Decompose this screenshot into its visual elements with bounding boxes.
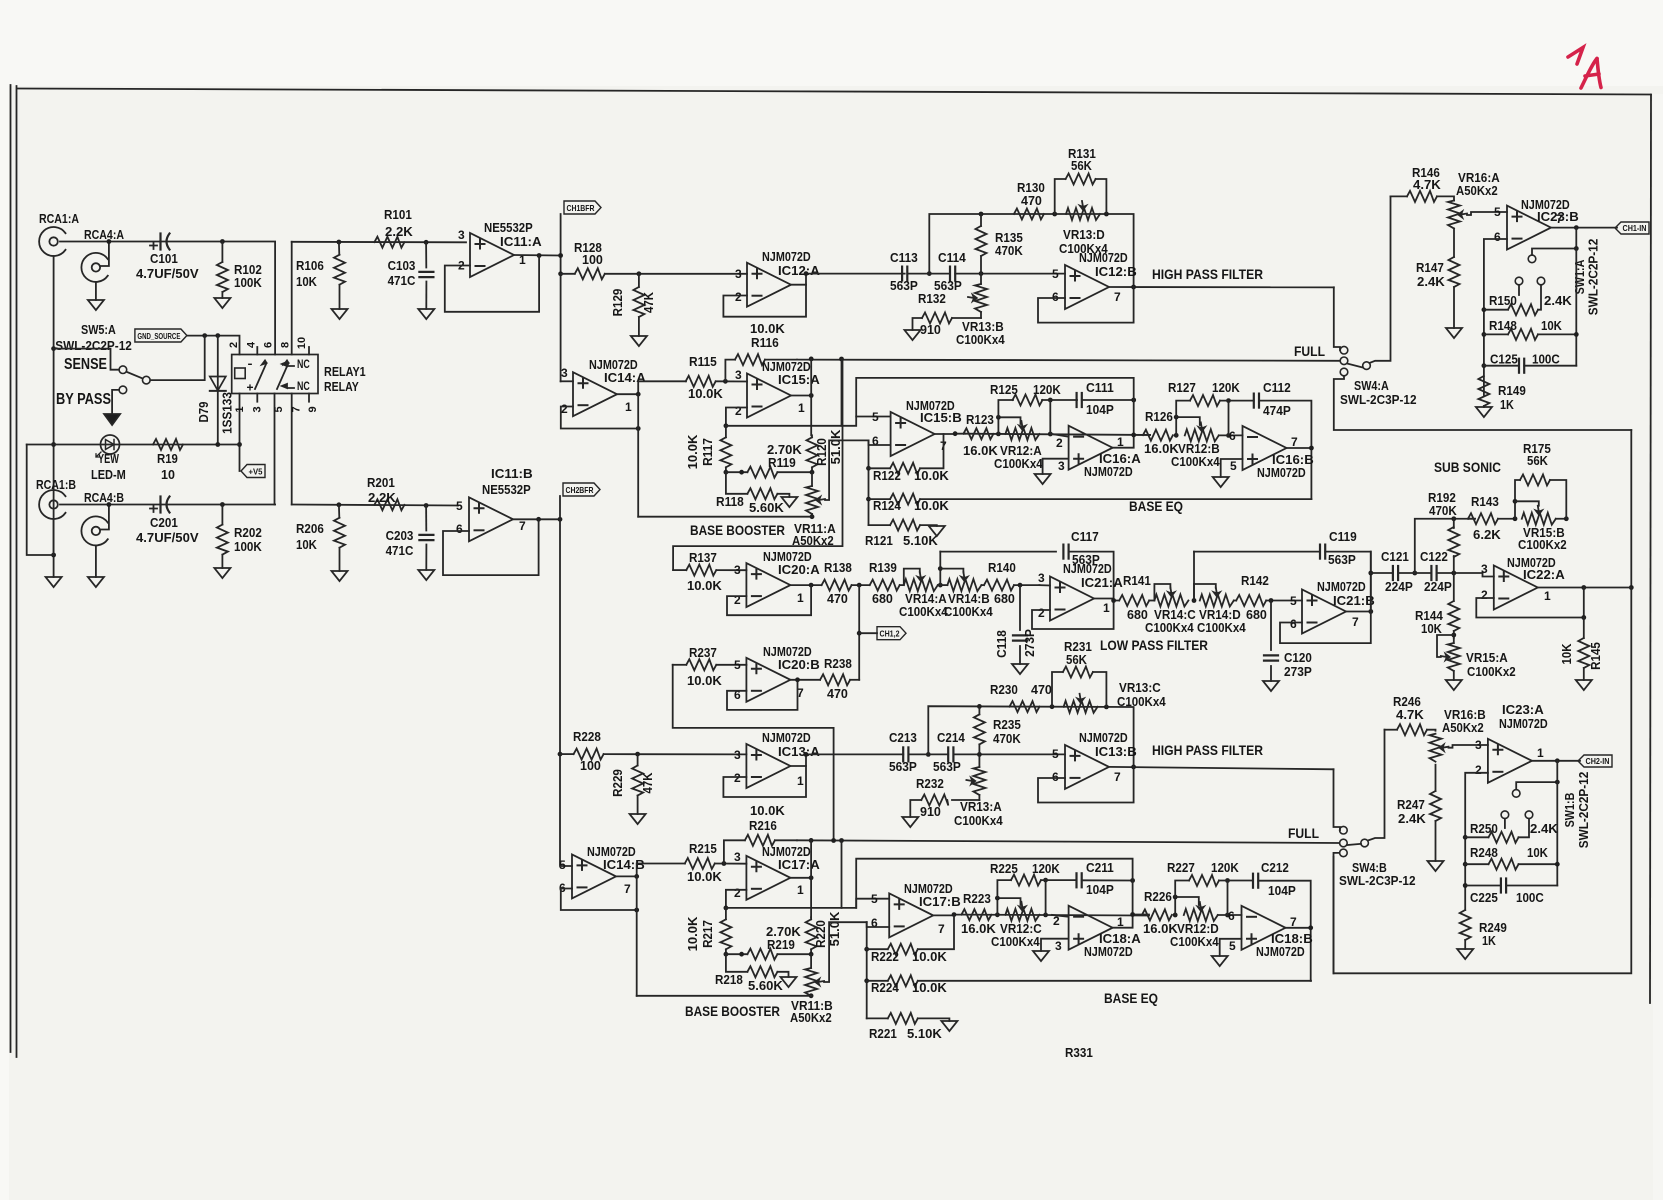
label FULL 2 [1288,825,1319,841]
junction C113-C114 [927,271,932,276]
svg-text:VR14:A: VR14:A [905,592,947,606]
switch SW4:B lever [1347,844,1361,845]
potentiometer VR12:C [991,902,1042,949]
svg-text:470K: 470K [1429,504,1457,518]
svg-text:5.60K: 5.60K [749,501,784,515]
wire C211 right [1082,879,1133,881]
svg-text:9: 9 [307,406,319,412]
svg-text:2.70K: 2.70K [767,443,802,457]
wire R225 riser left [997,880,1011,898]
svg-text:10.0K: 10.0K [914,499,949,513]
capacitor C214 [933,731,965,774]
svg-text:6: 6 [1228,909,1235,923]
resistor R222 [867,915,954,964]
svg-text:104P: 104P [1268,884,1296,898]
resistor R149 [1478,376,1525,412]
wire IC11:A out [514,254,561,257]
junction pin1-led line [237,442,242,447]
resistor R215 [685,842,747,884]
svg-text:BY PASS: BY PASS [56,391,111,408]
junction R202 top [220,502,225,507]
svg-text:SUB SONIC: SUB SONIC [1434,459,1501,475]
svg-text:RCA1:A: RCA1:A [39,211,79,226]
junction R206 top [337,502,342,507]
svg-text:IC23:A: IC23:A [1502,703,1544,717]
label NJM072D ic21b [1317,580,1366,594]
resistor R231 bracket [1052,640,1106,707]
svg-text:7: 7 [1291,435,1298,449]
resistor R228 [560,730,746,773]
switch SW4:B top [1340,826,1348,834]
wire VR11B wiper riser [824,922,867,982]
svg-text:100: 100 [580,759,601,773]
relay pin numbers bottom [234,406,319,412]
svg-text:NJM072D: NJM072D [762,360,811,374]
svg-text:IC23:B: IC23:B [1537,210,1579,224]
wire vr14ab [938,584,948,586]
wire sw4a bottom drop [1334,376,1632,430]
svg-text:IC14:B: IC14:B [603,858,645,872]
wire IC13:A feedback [723,766,806,797]
RCA4:B connector [81,490,124,545]
svg-text:VR13:C: VR13:C [1119,681,1161,695]
svg-text:3: 3 [735,267,742,281]
junction IC21:A out [1111,598,1116,603]
svg-text:RELAY: RELAY [324,380,359,394]
wire pin5 line [726,417,891,426]
junction C214 right [977,752,982,757]
ground C120 [1263,681,1279,691]
wire IC18:A out [1113,915,1149,928]
wire CH2 line segment B [292,505,458,506]
wire VR11A wiper riser [825,440,869,500]
wire IC14:A pin3 [561,380,573,382]
svg-text:IC12:A: IC12:A [778,264,820,278]
ground R129 [631,336,647,346]
svg-text:5: 5 [871,892,878,906]
wire RCA1:A stem [53,256,55,577]
wire IC17:A pin2 drop [726,890,747,908]
svg-text:GND_SOURCE: GND_SOURCE [137,332,181,341]
wire CH2 input line [60,504,275,506]
wire VR11A bottom line [638,516,812,518]
wire IC15:A pin2 drop [726,408,747,426]
wire R120 riser [810,396,812,436]
ground IC18:A pin3 [1033,951,1049,961]
wire hpf2 feedback riser [928,706,1133,767]
junction RCA4:A [107,239,112,244]
op-amp IC15:A [735,368,805,418]
junction IC14:B fb [634,908,639,913]
svg-text:IC16:A: IC16:A [1099,452,1141,466]
capacitor C120 [1264,601,1312,682]
svg-text:100C: 100C [1516,891,1544,905]
resistor R117 [686,426,731,472]
svg-text:2: 2 [734,886,741,900]
potentiometer VR16:B [1430,708,1486,791]
flag CH1,2 [877,627,906,640]
wire IC16:A out [1113,435,1150,448]
label NJM072D ic18b [1256,945,1305,959]
label IC23:B [1537,210,1579,224]
junction bus-pin5 drop [839,357,844,362]
ground R221 [941,1021,957,1031]
svg-text:680: 680 [1127,608,1148,622]
junction pin2-R217 2 [724,906,729,911]
resistor R237 [673,646,747,688]
resistor R127 [1168,381,1240,406]
junction sw1a rail top [1574,246,1579,251]
svg-text:5: 5 [1494,205,1501,219]
wire R225-C211 [1041,879,1077,881]
svg-text:1SS133: 1SS133 [221,392,235,434]
svg-text:2: 2 [1475,763,1482,777]
junction lpf out riser [1368,571,1373,576]
wire C213-C214 [908,753,948,755]
resistor R150 [1484,285,1572,315]
label NJM072D ic17a [762,845,811,859]
svg-text:7: 7 [624,882,631,896]
svg-text:YEW: YEW [98,452,119,466]
label IC12:A [778,264,820,278]
svg-text:NJM072D: NJM072D [1084,465,1133,479]
svg-text:6: 6 [1052,770,1059,784]
op-amp IC23:B [1494,205,1563,250]
svg-text:NC: NC [297,381,310,393]
svg-text:2: 2 [735,290,742,304]
label IC17:B [919,895,961,909]
potentiometer VR14:B [944,572,993,619]
junction RCA4:B [107,502,112,507]
label HIGH PASS FILTER 2 [1152,742,1263,758]
svg-text:3: 3 [1475,738,1482,752]
junction bypass return [51,553,56,558]
resistor R126 [1143,410,1179,456]
wire R220 riser [810,878,812,918]
junction VR15B right [1564,516,1569,521]
svg-text:C118: C118 [995,630,1009,658]
svg-text:SWL-2C3P-12: SWL-2C3P-12 [1339,874,1416,888]
label SW4:A [1354,379,1389,393]
wire sw4b bottom drop [1334,853,1340,973]
junction R123 bracket top [996,415,1001,420]
wire IC20:B out [790,679,820,681]
svg-text:47K: 47K [642,292,656,313]
svg-text:IC13:B: IC13:B [1095,745,1137,759]
resistor R120 [807,430,844,473]
svg-text:R116: R116 [751,336,779,350]
svg-text:FULL: FULL [1288,825,1319,841]
wire IC21:B feedback [1280,612,1371,644]
resistor R238 [820,657,859,701]
switch SW4:A bot [1340,368,1348,376]
junction IC20:B out [795,677,800,682]
resistor R235 [974,706,1021,754]
svg-text:C211: C211 [1086,861,1114,875]
junction right bus ic22 out [1629,585,1634,590]
svg-text:10.0K: 10.0K [687,674,722,688]
resistor R230 [990,683,1052,712]
wire relay pin8 riser [291,242,293,355]
svg-text:VR12:C: VR12:C [1000,922,1042,936]
relay coil minus [248,357,253,371]
op-amp IC13:A [734,744,804,788]
svg-text:SW4:A: SW4:A [1354,379,1389,393]
op-amp IC20:A [734,563,804,607]
label NJM072D ic17b [904,882,953,896]
svg-text:680: 680 [994,592,1015,606]
wire right bus vertical [1630,430,1632,588]
svg-text:BASE BOOSTER: BASE BOOSTER [690,522,785,538]
wire sw1a right rail [1575,249,1577,366]
relay pin 9 stub [308,394,310,402]
switch SW5 lever [127,372,143,378]
svg-text:R106: R106 [296,259,324,273]
resistor R131 bracket [1055,147,1107,214]
svg-text:LOW PASS FILTER: LOW PASS FILTER [1100,637,1208,653]
ground R232 [902,817,918,827]
capacitor C111 [1077,381,1114,417]
resistor R116 [725,322,797,381]
svg-text:R102: R102 [234,263,262,277]
resistor R226 [1142,890,1178,936]
label IC14:B [603,858,645,872]
wire RCA4:A ground stem [95,282,97,300]
svg-text:C100Kx4: C100Kx4 [954,814,1003,828]
label IC20:A [778,563,820,577]
ground R247 [1428,861,1444,871]
svg-text:10.0K: 10.0K [914,469,949,483]
junction R119-R120 [810,470,815,475]
svg-text:SW1:A: SW1:A [1573,260,1587,295]
ground R206 [332,571,348,581]
svg-text:NJM072D: NJM072D [589,358,638,372]
resistor R206 [296,505,345,571]
capacitor C122 [1420,550,1452,594]
label IC13:B [1095,745,1137,759]
svg-text:2: 2 [734,593,741,607]
svg-text:1: 1 [798,401,805,415]
relay NC labels [297,359,310,393]
RCA1:B connector [36,477,76,519]
wire IC21:B out [1346,611,1371,613]
svg-text:5: 5 [1052,267,1059,281]
junction VR13C right [1104,705,1109,710]
svg-text:NJM072D: NJM072D [763,645,812,659]
op-amp IC23:A [1475,738,1544,783]
svg-text:R192: R192 [1428,491,1456,505]
svg-text:470K: 470K [993,732,1021,746]
op-amp IC20:B [734,658,804,702]
resistor R130 [1014,181,1045,220]
svg-text:NC: NC [297,359,310,371]
svg-text:10.0K: 10.0K [912,981,947,995]
flag GND_SOURCE [135,329,187,342]
junction IC23:A out [1555,758,1560,763]
wire bypass bracket [112,390,119,414]
junction R219 left2 [739,952,744,957]
wire vr15b wiper [1515,501,1539,505]
label NJM072D ic16b [1257,466,1306,480]
flag CH1BFR [564,201,601,214]
wire IC14:B out [616,864,685,877]
label BY PASS [56,391,111,408]
potentiometer VR12:A [994,421,1043,471]
wire C113-C114 [907,273,950,275]
wire C117 riser [939,552,941,586]
LED D-LED [96,435,120,457]
wire IC11:B out [513,518,560,520]
wire sw4a lever out [1370,196,1391,363]
wire IC17:A out [790,877,811,879]
potentiometer VR11:A [792,472,836,548]
svg-text:VR13:B: VR13:B [962,320,1004,334]
junction R143-VR15B [1513,516,1518,521]
junction R148 left [1482,332,1487,337]
label NJM072D ic20a [763,550,812,564]
svg-text:CH1-IN: CH1-IN [1623,224,1647,233]
left border double line [11,85,17,1057]
junction sense tap [51,346,56,351]
resistor R249 [1460,910,1507,949]
wire hpf1 out to sw4a [1334,287,1340,350]
wire IC15:B pin6 [869,440,891,445]
svg-text:3: 3 [561,366,568,380]
svg-text:2: 2 [1038,606,1045,620]
junction IC15:A out [809,393,814,398]
wire LED line [27,444,240,446]
svg-text:SWL-2C2P-12: SWL-2C2P-12 [1577,772,1591,849]
svg-text:6: 6 [1229,429,1236,443]
capacitor C101 [136,234,199,282]
switch SW4:A lever contact [1363,362,1371,370]
label SW1:B rot [1563,793,1577,828]
svg-text:2.4K: 2.4K [1398,812,1426,826]
svg-text:C120: C120 [1284,651,1312,665]
ground R218 [781,977,797,987]
junction R225-C211 [1043,878,1048,883]
svg-text:3: 3 [252,406,264,412]
junction R138-R139 [857,583,862,588]
svg-text:R232: R232 [916,777,944,791]
capacitor C113 [890,251,918,293]
wire R223 bracket [997,898,1020,915]
svg-text:IC17:A: IC17:A [778,858,820,872]
wire bypass return [27,445,54,556]
resistor R124 [869,494,1312,513]
resistor R129 [611,274,656,336]
wire VR15A wiper [1437,635,1454,657]
svg-text:10K: 10K [296,275,317,289]
svg-text:10.0K: 10.0K [750,804,785,818]
svg-text:100C: 100C [1532,353,1560,367]
junction R129 top [637,271,642,276]
wire vr14c bridge [1154,584,1170,601]
op-amp IC12:A [735,263,791,307]
resistor R248 [1465,846,1557,870]
junction IC23:B out [1574,225,1579,230]
svg-text:2.2K: 2.2K [368,491,396,505]
resistor R223 [961,892,996,936]
junction IC18:A out [1130,912,1135,917]
svg-text:5: 5 [559,858,566,872]
relay pin 3 stub [256,394,258,402]
svg-text:BASE EQ: BASE EQ [1104,990,1158,1006]
label IC16:A [1099,452,1141,466]
svg-text:R115: R115 [689,355,717,369]
wire vr14b bridge [940,569,963,573]
op-amp IC18:A [1053,906,1124,953]
junction sw1b rail top [1555,780,1560,785]
label SWL-2C2P-12 sw5 [55,339,132,353]
resistor R119 [726,443,812,478]
potentiometer VR13:A [954,754,1003,828]
resistor R142 [1234,574,1302,622]
label NJM072D ic18a [1084,945,1133,959]
resistor R232 [910,777,979,819]
svg-text:6: 6 [1290,617,1297,631]
junction VR13D right [1104,212,1109,217]
junction R119 left2 [739,470,744,475]
svg-text:563P: 563P [889,760,917,774]
svg-text:R226: R226 [1144,890,1172,904]
svg-text:VR14:D: VR14:D [1199,608,1241,622]
svg-text:R19: R19 [157,452,178,466]
capacitor C211 [1077,861,1114,897]
svg-text:1: 1 [797,774,804,788]
svg-text:R246: R246 [1393,695,1421,709]
junction R223-VR12C [995,912,1000,917]
svg-text:5.60K: 5.60K [748,979,783,993]
svg-text:3: 3 [1058,459,1065,473]
wire C121-C122 [1398,572,1431,574]
label NE5532P ic11a [484,221,533,235]
svg-text:4.7K: 4.7K [1396,708,1424,722]
switch SW1:A top [1528,255,1536,263]
resistor R225 [990,862,1060,886]
svg-text:C112: C112 [1263,381,1291,395]
wire R226 bracket [1175,897,1199,915]
svg-text:7: 7 [1114,770,1121,784]
wire IC13:B out [1109,767,1334,769]
switch SW4:B lever contact [1361,839,1369,847]
svg-text:R121: R121 [865,534,893,548]
switch SW4:B bot [1340,849,1348,857]
wire IC18:A pin2 [1052,915,1069,917]
svg-text:120K: 120K [1033,383,1061,397]
svg-text:6: 6 [456,522,463,536]
junction C103 top [424,240,429,245]
svg-text:2.4K: 2.4K [1530,822,1558,836]
svg-text:680: 680 [1246,608,1267,622]
wire R237 feed [673,665,834,841]
flag CH1-IN [1615,222,1649,234]
op-amp IC21:A [1038,571,1110,621]
label BASE BOOSTER 1 [690,522,785,538]
junction IC21:B out [1368,609,1373,614]
svg-text:IC18:B: IC18:B [1271,932,1313,946]
junction bus2-R237 tap [831,838,836,843]
ground R149 [1476,407,1492,417]
svg-text:10: 10 [161,468,175,482]
wire bus2 drop to pin5 [841,841,843,908]
svg-text:RCA4:B: RCA4:B [84,490,124,505]
svg-text:A50Kx2: A50Kx2 [1456,184,1498,198]
svg-text:R228: R228 [573,730,601,744]
junction R226-VR12D [1173,913,1178,918]
junction R222 left [864,947,869,952]
svg-text:10.0K: 10.0K [686,435,700,470]
